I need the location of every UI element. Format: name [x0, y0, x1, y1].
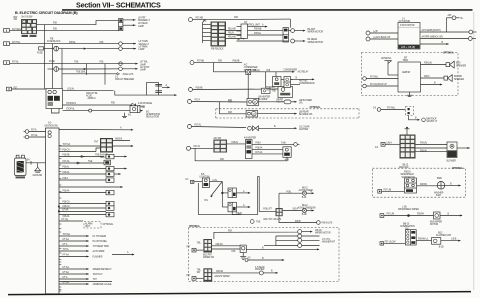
- fan row y284: [59, 281, 112, 286]
- svg-text:AMMETER GAUGE: AMMETER GAUGE: [93, 283, 112, 286]
- svg-text:MOTOR: MOTOR: [430, 224, 438, 226]
- svg-text:TNE: TNE: [95, 155, 100, 157]
- terminal ring T11: [188, 123, 247, 128]
- connector C4: [4, 60, 20, 64]
- svg-text:F08 AB: F08 AB: [63, 154, 70, 157]
- svg-text:GR/LPS WIPER: GR/LPS WIPER: [214, 276, 230, 278]
- label fuse block small: [47, 39, 61, 44]
- svg-text:B.S: B.S: [205, 200, 209, 202]
- aux blower bottom wire: [263, 216, 332, 224]
- wire row y63.6: [10, 63, 138, 65]
- svg-text:STOP AL: STOP AL: [66, 107, 75, 110]
- diode D1: [132, 102, 153, 108]
- svg-text:F08 CA: F08 CA: [63, 205, 71, 208]
- svg-text:AM/FM: AM/FM: [402, 70, 410, 74]
- svg-text:COMPRESSOR: COMPRESSOR: [299, 83, 315, 85]
- svg-text:4-6 HEATER: 4-6 HEATER: [244, 137, 256, 140]
- connector node row3: [119, 47, 123, 51]
- svg-text:OPTIONAL: OPTIONAL: [310, 106, 322, 109]
- fan row y279: [59, 276, 97, 281]
- label combination switch: [400, 223, 415, 230]
- fan row y211.5: [59, 209, 106, 212]
- svg-text:LN: LN: [186, 179, 189, 181]
- svg-text:L/F HEAD: L/F HEAD: [138, 22, 148, 25]
- connector C10: [378, 189, 405, 193]
- connector C5: [7, 87, 18, 91]
- relay out1: [420, 29, 477, 34]
- svg-text:TNT: TNT: [93, 279, 98, 281]
- svg-text:F/B F.BLOCK: F/B F.BLOCK: [211, 49, 224, 51]
- wire roof mount: [409, 116, 438, 124]
- compressor wire: [291, 78, 315, 85]
- svg-text:BLOWER: BLOWER: [258, 99, 268, 101]
- svg-text:FBL B: FBL B: [228, 33, 234, 35]
- svg-text:F/T A: F/T A: [63, 243, 68, 246]
- svg-text:F08 AL: F08 AL: [63, 166, 70, 169]
- wire heater out1: [227, 141, 245, 144]
- svg-text:F07 L/M: F07 L/M: [384, 189, 392, 191]
- vertical wire vx86: [86, 64, 88, 75]
- svg-text:A/C RELAY: A/C RELAY: [298, 71, 309, 74]
- fan row y221 optional alarm: [59, 218, 114, 228]
- svg-text:F/T AA: F/T AA: [63, 254, 70, 257]
- washer switch U12: [405, 178, 417, 193]
- svg-text:AN/T A/C: AN/T A/C: [299, 79, 308, 82]
- connector C2: [4, 42, 21, 46]
- washer pump P1: [417, 182, 462, 190]
- svg-text:OPTIONAL: OPTIONAL: [452, 167, 464, 170]
- svg-text:M: M: [253, 114, 255, 116]
- svg-text:F07 A: F07 A: [195, 98, 201, 101]
- U11 out3: [416, 151, 448, 153]
- terminal ring T5: [366, 31, 378, 35]
- svg-text:WIPER MOTOR: WIPER MOTOR: [315, 233, 331, 235]
- fuse F2: [48, 67, 87, 72]
- antenna A1: [381, 57, 398, 75]
- svg-text:F08 (L4): F08 (L4): [424, 63, 432, 65]
- svg-text:AUX BLOWER SW: AUX BLOWER SW: [298, 206, 317, 209]
- ac relay box: [273, 77, 282, 87]
- svg-text:Tn/B: Tn/B: [281, 142, 286, 144]
- long wire y249.4: [246, 248, 319, 251]
- strip out2: [252, 147, 283, 150]
- fan row y246: [59, 243, 109, 248]
- flasher unit U14: [416, 238, 461, 245]
- washer pump box W1: [240, 245, 246, 252]
- wire U1 out1: [248, 23, 268, 27]
- U11 out1: [416, 142, 448, 145]
- junction dot: [407, 214, 410, 217]
- U11 top stub: [405, 127, 410, 135]
- arrow cap mid: [162, 84, 170, 88]
- svg-text:TNT CA: TNT CA: [63, 143, 71, 146]
- terminal ring R2: [298, 234, 302, 238]
- terminal ring T7: [363, 76, 398, 81]
- svg-text:WIPER SW: WIPER SW: [203, 257, 215, 259]
- small arrow wire y254.5: [112, 251, 135, 255]
- fan row y168.5: [59, 166, 127, 171]
- trunk top wire out: [59, 129, 133, 131]
- heater control block A: [213, 137, 227, 153]
- svg-text:F08 PA: F08 PA: [417, 213, 424, 216]
- svg-text:ALTERNATOR: ALTERNATOR: [146, 113, 160, 116]
- svg-text:TNT REAR TRIM: TNT REAR TRIM: [93, 245, 109, 248]
- svg-text:WIPER MOTOR: WIPER MOTOR: [308, 42, 324, 44]
- label under relay U7: [100, 153, 108, 159]
- fan row y151.5: [59, 148, 100, 152]
- fan row y174: [59, 171, 121, 176]
- svg-text:TNE: TNE: [272, 90, 277, 92]
- fan row y236: [59, 233, 107, 238]
- svg-text:F07 L/M: F07 L/M: [387, 214, 395, 216]
- combination switch U13: [405, 230, 416, 245]
- svg-text:REGULATOR: REGULATOR: [146, 116, 159, 119]
- terminal ring R3: [298, 238, 302, 242]
- vertical wire vx44: [44, 25, 46, 89]
- terminal box TB1: [447, 142, 458, 162]
- blower motor M1: [247, 99, 259, 106]
- terminal ring T4: [291, 38, 324, 44]
- terminal ring T6: [366, 36, 391, 41]
- svg-text:A05 + CB (B): A05 + CB (B): [401, 46, 415, 49]
- wire switch out: [210, 180, 223, 182]
- svg-text:F08 A: F08 A: [424, 75, 430, 78]
- connector C12: [380, 242, 405, 245]
- svg-text:FUSE BLOCK: FUSE BLOCK: [47, 41, 61, 43]
- svg-text:TACHO LT: TACHO LT: [93, 273, 104, 276]
- thermo relay U5: [266, 87, 293, 98]
- label above relay: [399, 18, 411, 23]
- U11 out2: [416, 148, 448, 152]
- svg-text:OPTIONAL: OPTIONAL: [443, 51, 455, 54]
- svg-text:F08 B: F08 B: [295, 221, 301, 223]
- svg-text:IGNITION SW: IGNITION SW: [45, 126, 59, 128]
- svg-text:WIPER MOTOR: WIPER MOTOR: [308, 31, 324, 33]
- ignition switch trunk U6: [46, 128, 60, 294]
- svg-text:ANT/FR (W/BACK UP): ANT/FR (W/BACK UP): [422, 36, 444, 39]
- svg-text:L/M A: L/M A: [387, 141, 393, 144]
- fuse assy FA1: [222, 188, 250, 198]
- wire to junction box: [12, 88, 47, 90]
- arrow main feed: [174, 94, 177, 96]
- junction dot J1: [58, 206, 60, 208]
- radio out1 + speaker SP1: [421, 61, 467, 68]
- capacitor branch riser: [146, 83, 158, 96]
- arrow row4: [135, 61, 148, 67]
- svg-text:F08 A: F08 A: [63, 177, 69, 180]
- heater loop wire: [195, 148, 287, 161]
- wire loop corner: [289, 19, 291, 28]
- fuse F1: [44, 46, 86, 51]
- label circuit breaker cont: [115, 77, 135, 82]
- svg-text:L/F TAIL: L/F TAIL: [140, 61, 148, 64]
- svg-text:LAMP: LAMP: [140, 69, 146, 72]
- svg-text:F08 A: F08 A: [255, 142, 261, 145]
- radio out2 + speaker SP2: [421, 75, 465, 82]
- svg-text:M: M: [254, 102, 256, 104]
- vertical wire vx62: [61, 49, 63, 89]
- svg-text:F08 (A): F08 (A): [420, 142, 427, 145]
- svg-text:F07 (A) BACK UP: F07 (A) BACK UP: [370, 83, 387, 86]
- ring out1: [302, 229, 331, 235]
- aux wire y260: [245, 258, 285, 261]
- fan row y192.5: [59, 190, 114, 195]
- ring feeds: [264, 236, 298, 246]
- svg-text:B-4B: B-4B: [436, 195, 441, 197]
- svg-text:A/C: A/C: [244, 64, 248, 67]
- radio unit U3: [398, 62, 421, 92]
- svg-text:F08 L: F08 L: [286, 191, 292, 193]
- svg-text:L/B HEATER: L/B HEATER: [258, 95, 270, 98]
- svg-text:FUSE: FUSE: [49, 61, 55, 63]
- aux blower riser: [278, 193, 280, 208]
- svg-text:F/T AA: F/T AA: [63, 266, 70, 269]
- svg-text:TRIM: TRIM: [403, 60, 408, 62]
- svg-text:F07 AA: F07 AA: [255, 151, 262, 154]
- dashed optional blower box: [216, 106, 359, 118]
- svg-text:F07 AL: F07 AL: [195, 123, 202, 126]
- arrow trunk top: [120, 127, 134, 131]
- svg-text:B/D: B/D: [142, 107, 146, 109]
- label A/T control unit: [244, 21, 260, 27]
- svg-text:OPTIONAL: OPTIONAL: [103, 223, 114, 226]
- wire top feed: [193, 18, 291, 21]
- capacitor C7: [155, 91, 162, 93]
- ring out4: [302, 245, 320, 247]
- svg-text:MARKER LT: MARKER LT: [138, 19, 151, 22]
- fan row y203.5: [59, 201, 114, 206]
- svg-text:TNE 30AL: TNE 30AL: [76, 70, 86, 73]
- svg-text:F08 AL: F08 AL: [69, 41, 76, 44]
- connector block CB3: [281, 77, 291, 88]
- lower stub: [291, 84, 301, 86]
- svg-text:OPTIONAL: OPTIONAL: [189, 225, 201, 228]
- label windshield wiper: [398, 207, 419, 212]
- relay unit U2: [398, 23, 420, 50]
- svg-text:CIRCUIT BREAKER: CIRCUIT BREAKER: [115, 78, 135, 81]
- ground G1: [33, 163, 43, 177]
- F/B fuse block FB2: [211, 22, 227, 47]
- wiper relay U9: [196, 239, 212, 253]
- connector node row63: [119, 62, 123, 66]
- wire block out bottom: [37, 29, 119, 31]
- svg-text:ACTUATOR: ACTUATOR: [399, 20, 411, 23]
- svg-text:F07 AB: F07 AB: [197, 59, 204, 62]
- label alternator: [128, 111, 160, 118]
- svg-text:FBL A/B: FBL A/B: [228, 28, 236, 31]
- inline connector box: [246, 70, 251, 75]
- svg-text:TNT A: TNT A: [63, 248, 69, 251]
- svg-text:P ANT MOTOR: P ANT MOTOR: [400, 24, 415, 27]
- svg-text:F08 AA: F08 AA: [63, 171, 70, 174]
- svg-text:L/F FRT: L/F FRT: [138, 17, 146, 19]
- svg-text:F08 AA: F08 AA: [63, 190, 70, 193]
- light switch connector: [186, 179, 194, 184]
- svg-text:MOUNT LT: MOUNT LT: [427, 121, 438, 123]
- connector ring T2: [190, 61, 194, 65]
- svg-text:AC/30: AC/30: [86, 94, 93, 97]
- svg-text:GROUND: GROUND: [33, 175, 43, 177]
- dimmer diagonal: [205, 182, 223, 202]
- svg-text:FUSE: FUSE: [37, 53, 43, 55]
- wire block out top: [37, 21, 119, 25]
- label condenser fan: [244, 64, 258, 72]
- fuse block FB1: [21, 19, 37, 34]
- roof mount feed ring: [373, 107, 406, 112]
- arrow fuse row2: [84, 67, 150, 72]
- terminal ring R1: [298, 230, 302, 234]
- U9 out1: [212, 243, 240, 246]
- arrow row2: [122, 41, 149, 46]
- svg-text:L/F STOP: L/F STOP: [140, 67, 150, 69]
- thermo out1: [284, 78, 293, 80]
- wiper motor M4: [434, 212, 463, 219]
- svg-text:F07 ANL: F07 ANL: [370, 76, 379, 79]
- svg-text:AM/S B: AM/S B: [115, 138, 123, 141]
- svg-text:C/L CIGAR: C/L CIGAR: [299, 125, 310, 128]
- connector block CB2: [283, 28, 289, 42]
- fan row y256.5: [59, 254, 103, 259]
- label wiper motor: [430, 222, 442, 227]
- svg-text:F07 A: F07 A: [31, 129, 37, 132]
- svg-text:WASHER MT: WASHER MT: [322, 241, 336, 244]
- junction dot J2: [58, 210, 60, 212]
- strip out3: [252, 151, 283, 154]
- rear washer ring: [255, 266, 278, 275]
- fuse link small box: [262, 72, 277, 94]
- wire U1 out3: [248, 32, 284, 35]
- terminal ring T13: [24, 129, 46, 134]
- svg-text:L/F PARK: L/F PARK: [139, 45, 149, 48]
- svg-text:F08 A/B: F08 A/B: [254, 28, 262, 31]
- svg-text:FBL A/B: FBL A/B: [228, 36, 236, 39]
- relay out2: [420, 36, 476, 41]
- U10 out1: [212, 270, 259, 278]
- pin stubs: [237, 27, 242, 36]
- svg-text:LOS: LOS: [213, 180, 218, 182]
- svg-text:WASHER: WASHER: [255, 268, 265, 271]
- svg-text:B. ELECTRIC CIRCUIT DIAGRAM (B: B. ELECTRIC CIRCUIT DIAGRAM (B): [15, 11, 78, 15]
- svg-text:F08 L/FT: F08 L/FT: [263, 209, 272, 211]
- U9 out2: [212, 249, 240, 253]
- vertical wire vx105: [104, 64, 106, 85]
- F/B out 1: [226, 28, 246, 32]
- svg-text:A/C SW: A/C SW: [214, 137, 222, 140]
- label under thermo: [276, 98, 283, 104]
- radio ground: [407, 92, 412, 96]
- connector C3: [37, 47, 44, 55]
- connector C11: [380, 214, 434, 218]
- svg-text:FLASHER: FLASHER: [93, 256, 103, 259]
- svg-text:Section VII– SCHEMATICS: Section VII– SCHEMATICS: [76, 2, 161, 10]
- wire row y62.6: [194, 62, 242, 64]
- svg-text:MAIN SW: MAIN SW: [399, 166, 409, 169]
- fan row y146: [59, 143, 100, 146]
- relay U7 out2: [113, 145, 134, 147]
- wire jog down: [115, 91, 177, 96]
- svg-text:ANTENNA: ANTENNA: [381, 57, 392, 60]
- svg-text:4-6 A/C: 4-6 A/C: [276, 98, 283, 101]
- svg-text:B/4B: B/4B: [437, 178, 442, 180]
- U-tail under junction box: [52, 109, 60, 114]
- svg-text:F08 (A): F08 (A): [253, 69, 260, 72]
- capacitor C6: [155, 84, 162, 86]
- svg-text:F07 AL: F07 AL: [194, 145, 201, 148]
- wire T5 to relay: [370, 32, 398, 34]
- svg-text:F08 AL: F08 AL: [232, 141, 239, 144]
- terminal ring T8: [363, 83, 398, 88]
- svg-text:F07 AL: F07 AL: [31, 134, 38, 137]
- connector C1: [4, 28, 22, 32]
- radio out3 arrow: [421, 82, 443, 85]
- svg-text:STOP/LPL: STOP/LPL: [66, 103, 77, 105]
- svg-text:L/F TURN: L/F TURN: [139, 41, 149, 43]
- F/B out 2: [226, 33, 246, 36]
- svg-text:HL FRT PANEL: HL FRT PANEL: [93, 240, 108, 243]
- FA2 tail: [232, 212, 242, 215]
- wire U1 out2: [248, 28, 284, 31]
- wire row y73.8: [62, 70, 134, 76]
- svg-text:FLASHER UNIT: FLASHER UNIT: [436, 234, 452, 237]
- terminal ring T10: [188, 98, 249, 103]
- svg-text:HL TNT REAR: HL TNT REAR: [93, 235, 107, 238]
- junction ring J3: [250, 220, 261, 224]
- label pump: [434, 178, 444, 197]
- fan row y274: [59, 271, 103, 276]
- svg-text:SPEAKER: SPEAKER: [456, 64, 466, 67]
- connector node row2: [119, 42, 123, 46]
- svg-text:TNT: TNT: [94, 141, 99, 143]
- svg-text:30ALF LPS: 30ALF LPS: [123, 73, 134, 76]
- condenser feed drop: [214, 63, 295, 72]
- wire T6 to relay: [370, 38, 398, 40]
- connector stack CS1: [119, 19, 123, 31]
- svg-text:F07 L/LOW: F07 L/LOW: [385, 242, 397, 244]
- dashed optional box bottom-left: [189, 228, 340, 282]
- junction box U4: [46, 89, 63, 109]
- long branch right y281.5: [59, 281, 112, 283]
- svg-text:F08 AB: F08 AB: [233, 59, 240, 62]
- fan row y214.5: [59, 212, 114, 218]
- resistor box B: [283, 147, 291, 162]
- control unit U1: [241, 24, 248, 39]
- heater strip: [244, 137, 256, 159]
- svg-text:(+) ACC BACK UP: (+) ACC BACK UP: [373, 36, 391, 39]
- svg-text:B-1B: B-1B: [302, 214, 307, 216]
- label above radio: [403, 58, 408, 63]
- svg-text:LAMP: LAMP: [138, 25, 144, 28]
- connector C8: [187, 275, 204, 280]
- battery B2: [15, 155, 27, 178]
- light switch block: [194, 178, 210, 188]
- svg-text:B/10 RR: B/10 RR: [454, 76, 462, 78]
- arrow out 1: [123, 17, 151, 22]
- rear blower branch: [219, 101, 246, 114]
- label under U11: [399, 165, 409, 170]
- fuse row upper: [279, 188, 314, 199]
- label heater blower: [258, 95, 270, 101]
- terminal ring T14: [24, 134, 46, 139]
- svg-text:ANT 30A/B (W/ANT): ANT 30A/B (W/ANT): [422, 29, 441, 32]
- fan row y156.5: [59, 154, 104, 158]
- svg-text:AUTO DIMR: AUTO DIMR: [93, 250, 105, 253]
- fan row y251: [59, 248, 105, 253]
- svg-text:LF AA: LF AA: [63, 209, 69, 212]
- svg-text:F08 W LPS: F08 W LPS: [322, 223, 333, 225]
- wire out y90.6: [63, 87, 114, 90]
- washer relay U10: [203, 268, 212, 281]
- ground G2: [240, 253, 251, 260]
